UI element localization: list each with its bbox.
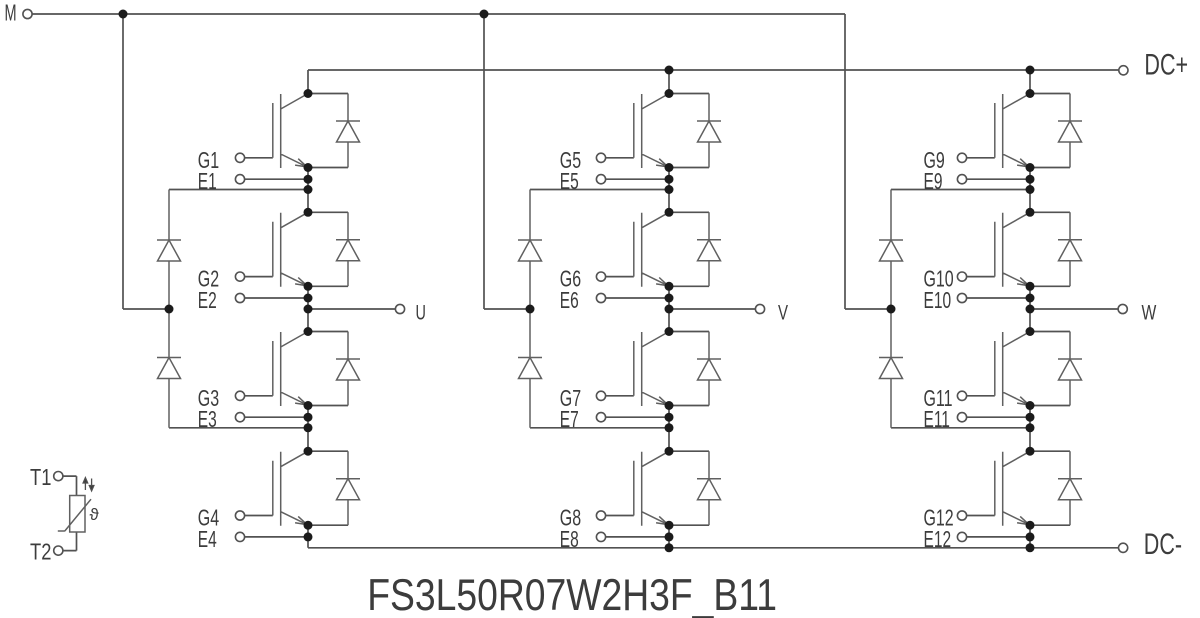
svg-text:V: V (778, 300, 789, 324)
svg-text:E10: E10 (924, 288, 952, 314)
svg-text:E9: E9 (924, 169, 943, 195)
svg-text:E5: E5 (560, 169, 579, 195)
svg-text:W: W (1142, 300, 1157, 324)
svg-text:E6: E6 (560, 288, 579, 314)
svg-text:DC+: DC+ (1144, 49, 1188, 81)
svg-text:FS3L50R07W2H3F_B11: FS3L50R07W2H3F_B11 (367, 570, 777, 618)
svg-text:E7: E7 (560, 407, 579, 433)
svg-text:E4: E4 (198, 527, 217, 553)
svg-text:E12: E12 (924, 527, 952, 553)
svg-text:E11: E11 (924, 407, 950, 433)
svg-text:T2: T2 (30, 539, 51, 565)
svg-text:ϑ: ϑ (90, 505, 100, 524)
svg-text:E3: E3 (198, 407, 217, 433)
svg-text:E1: E1 (198, 169, 217, 195)
svg-text:T1: T1 (30, 465, 51, 491)
svg-text:M: M (5, 2, 17, 27)
svg-text:DC-: DC- (1144, 529, 1182, 561)
svg-text:E8: E8 (560, 527, 579, 553)
svg-text:E2: E2 (198, 288, 217, 314)
svg-text:U: U (416, 299, 426, 324)
